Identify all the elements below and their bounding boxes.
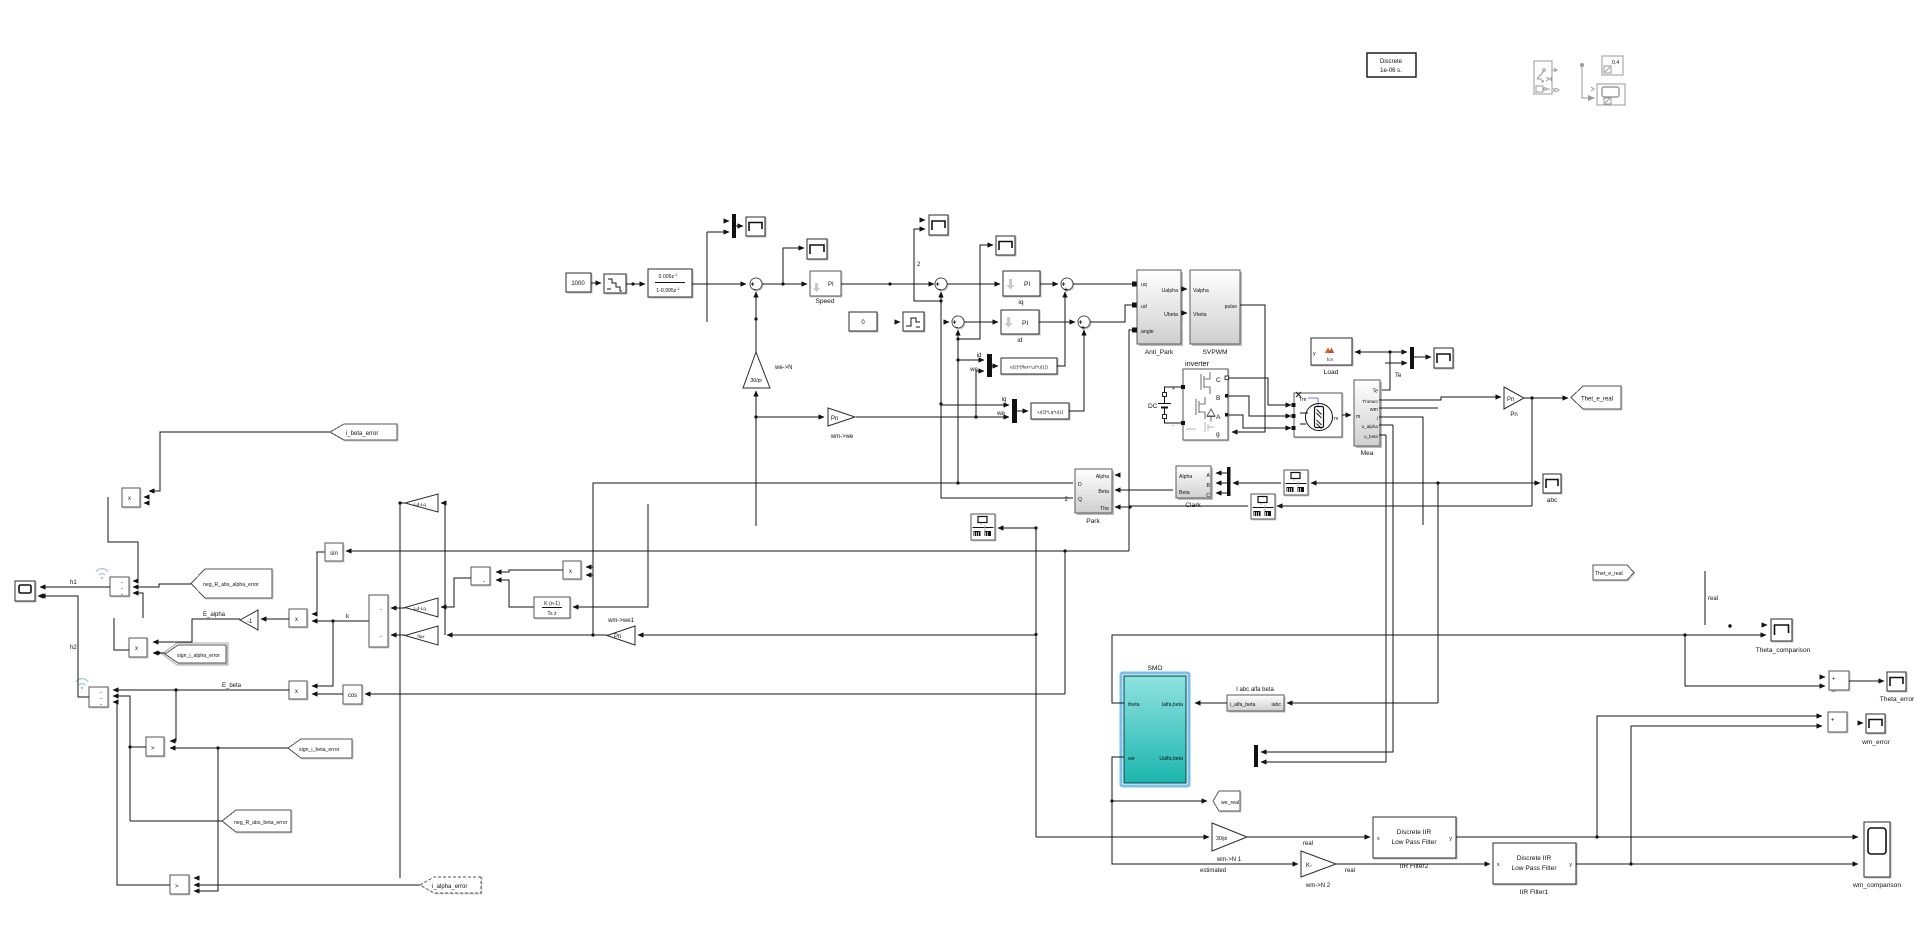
wire K to sumB [496, 580, 534, 607]
svg-text:Discrete: Discrete [1380, 59, 1403, 65]
wire id to scope5 [958, 245, 993, 339]
inverter block [1181, 369, 1229, 440]
junction [1128, 505, 1131, 508]
from tag sign_i_beta_error [288, 739, 352, 758]
svg-text:u_beta: u_beta [1364, 434, 1378, 439]
wifi icon sum3 [96, 569, 108, 580]
svg-text:cos: cos [348, 693, 357, 699]
sum1 speed [750, 278, 762, 294]
svg-text:1e-06 s.: 1e-06 s. [1380, 68, 1402, 74]
IIR filter2 [1373, 817, 1456, 870]
PI iq [1003, 271, 1040, 306]
svg-text:Discrete IIR: Discrete IIR [1517, 855, 1552, 862]
wire rt3 in from right [998, 527, 1036, 529]
wire switch1 in1 [170, 690, 176, 741]
wire mux4 to fcn2 [1017, 410, 1028, 412]
svg-text:real: real [1708, 596, 1718, 602]
svg-text:Beta: Beta [1179, 490, 1190, 496]
powergui Discrete [1367, 53, 1416, 77]
svg-text:x: x [135, 646, 138, 652]
from tag neg_R_abs_alpha_error [191, 569, 272, 598]
wire mux0 in1 [727, 220, 729, 222]
svg-text:ud: ud [1141, 304, 1147, 310]
wire Te to load fcn and mux5 [1355, 352, 1390, 390]
svg-text:x: x [128, 496, 131, 502]
svg-text:sign_i_beta_error: sign_i_beta_error [299, 747, 340, 753]
svg-text:g: g [1216, 431, 1220, 438]
wire gain3 to tallsum [391, 634, 405, 636]
svg-text:Discrete IIR: Discrete IIR [1397, 829, 1432, 836]
wire rt1 out to demux [1233, 482, 1281, 484]
svg-text:wm->we1: wm->we1 [607, 618, 635, 624]
svg-text:B: B [1207, 483, 1211, 489]
svg-text:D: D [1078, 482, 1082, 488]
svg-text:+: + [1832, 677, 1836, 683]
svg-text:Clark: Clark [1185, 502, 1201, 509]
junction theta cmp [1683, 633, 1686, 636]
svg-text:iq: iq [1002, 397, 1007, 403]
wire inverter A to motor c [1229, 415, 1291, 428]
wire sum2 out to PI iq [947, 283, 1000, 285]
wire const to ZOH [591, 282, 601, 284]
svg-text:we: we [1128, 756, 1135, 762]
svg-text:Ualfa,beta: Ualfa,beta [1159, 756, 1183, 762]
svg-text:wm: wm [1370, 407, 1378, 413]
wire x401 free end [399, 503, 401, 878]
svg-text:-: - [100, 702, 102, 708]
svg-text:Theta_error: Theta_error [1880, 696, 1915, 703]
junction theta park [1128, 506, 1130, 508]
svg-text:+: + [1831, 718, 1835, 724]
gain 30/pi wm-N1 [1212, 823, 1247, 863]
svg-text:+: + [1172, 386, 1175, 392]
svg-text:uq: uq [1141, 282, 1147, 288]
svg-text:Theta_comparison: Theta_comparison [1756, 647, 1811, 654]
svg-text:IIR Filter1: IIR Filter1 [1520, 889, 1549, 896]
wire fcn2 to sum5 [1069, 330, 1084, 411]
wire Clark beta to Park beta [1115, 489, 1173, 491]
svg-text:>: > [175, 884, 179, 890]
svg-text:Alpha: Alpha [1096, 474, 1109, 480]
wire sum2 bottom in [940, 292, 942, 301]
constant 0 [849, 312, 877, 331]
wire x1 down to sum3 [108, 497, 138, 581]
step block [897, 312, 924, 331]
svg-text:neg_R_abs_beta_error: neg_R_abs_beta_error [234, 820, 288, 826]
wire theta branch down [1064, 551, 1066, 694]
wire id line from Park D [593, 483, 1073, 635]
svg-text:sign_i_alpha_error: sign_i_alpha_error [177, 653, 220, 659]
svg-text:Thet_e_real: Thet_e_real [1581, 397, 1613, 403]
Anti_Park subsystem [1137, 270, 1183, 356]
cos block [343, 685, 362, 704]
svg-text:wm->we: wm->we [830, 434, 854, 440]
svg-text:wm->N 2: wm->N 2 [1305, 883, 1331, 889]
wire sum3 in3 stub [133, 593, 143, 618]
svg-text:wm->N 1: wm->N 1 [1216, 857, 1242, 863]
wire IIR2 out to wm_comparison [1456, 836, 1858, 838]
svg-text:Low Pass Filter: Low Pass Filter [1391, 839, 1437, 846]
wires demux to clark [1216, 472, 1227, 474]
wire TF to sum1 [692, 283, 746, 285]
svg-text:Ts z: Ts z [547, 611, 557, 617]
Park subsystem [1065, 469, 1119, 525]
svg-text:i_alfa_beta: i_alfa_beta [1230, 702, 1255, 708]
svg-text:Ld-Lq: Ld-Lq [414, 502, 426, 507]
wire mea u_beta [1379, 434, 1386, 436]
gray scope block [1581, 64, 1626, 106]
svg-text:y: y [1313, 351, 1316, 357]
svg-text:m: m [1334, 416, 1338, 422]
mux5 [1410, 347, 1414, 369]
wire i_beta_error to x1 [149, 432, 330, 491]
svg-text:iq: iq [1018, 299, 1023, 306]
wire sum5 out to AntiPark ud [1090, 305, 1132, 322]
svg-text:flux: flux [417, 634, 425, 639]
svg-text:Te: Te [1395, 373, 1402, 379]
goto2 Thet_e_real [1593, 565, 1634, 580]
svg-text:-: - [121, 592, 123, 598]
wire fcn1 to sum4 [1057, 292, 1065, 366]
svg-text:Mea: Mea [1361, 450, 1374, 457]
product xb [563, 561, 581, 579]
gain Pn wm-we1 left [607, 618, 635, 645]
gain K wm-N2 [1301, 851, 1336, 889]
wire we up to mux3 [976, 371, 984, 417]
wire sign alpha to x2 [153, 652, 165, 654]
wire PI speed to sum2 [841, 283, 934, 285]
wire to 30pi2 [1036, 836, 1209, 838]
stray dot [1728, 624, 1731, 627]
mux3 id-we [969, 353, 992, 377]
wire sum6 to scope [1849, 680, 1884, 682]
scope Theta_error [1880, 672, 1915, 703]
scope1 [746, 217, 765, 236]
wire real segment [1704, 571, 1706, 625]
sum7 wm err [1828, 712, 1847, 732]
junction [939, 299, 942, 302]
wire theta real down [1531, 398, 1533, 506]
svg-text:wm_error: wm_error [1861, 739, 1891, 746]
junction [754, 415, 757, 418]
wire inverter C to motor a [1229, 378, 1291, 405]
svg-text:h2: h2 [70, 645, 77, 651]
svg-text:theta: theta [1128, 702, 1140, 708]
tall sum [369, 595, 388, 647]
svg-text:SMO: SMO [1147, 665, 1162, 672]
sum3 3minus [110, 577, 129, 598]
svg-text:neg_R_abs_alpha_error: neg_R_abs_alpha_error [203, 582, 259, 588]
wire SMO theta out [1112, 635, 1766, 703]
discrete transfer fcn 0.005z/1-0.995z [648, 269, 692, 297]
svg-text:A: A [1207, 473, 1211, 479]
wire iabc vertical [1437, 483, 1439, 703]
svg-text:wm_comparison: wm_comparison [1852, 882, 1901, 889]
wire SMO we out estimated [1112, 757, 1298, 864]
scope4 [1434, 348, 1453, 368]
svg-text:30/pi: 30/pi [750, 378, 761, 384]
wire Pn3 to tag [1524, 397, 1568, 399]
wire sum3 out to scope [40, 586, 110, 588]
svg-text:x: x [1497, 862, 1500, 868]
wire sum3 bottom in [957, 330, 959, 339]
sum2 iq [935, 278, 947, 294]
wire Ualpha to SVPWM [1181, 288, 1187, 290]
wire theta main horizontal to sin [346, 550, 1129, 552]
SMO block selected [1121, 665, 1189, 786]
svg-text:fcn: fcn [1327, 357, 1334, 362]
svg-text:E_beta: E_beta [222, 683, 242, 689]
product x1 [122, 488, 146, 507]
wire mux5 to scope4 [1414, 356, 1431, 358]
svg-text:y: y [1569, 862, 1572, 868]
junction [888, 282, 891, 285]
svg-text:0.4: 0.4 [1612, 60, 1619, 66]
svg-text:pulse: pulse [1225, 304, 1238, 310]
wire ialfabeta to SMO [1195, 702, 1227, 704]
K derivative block [534, 597, 570, 618]
svg-text:PI: PI [1022, 320, 1028, 327]
svg-text:Te: Te [1373, 389, 1379, 395]
svg-text:inverter: inverter [1185, 359, 1210, 368]
rate transition 2 [1251, 494, 1275, 519]
wire pulse to inverter g [1232, 305, 1265, 432]
svg-text:B: B [1216, 395, 1221, 402]
wire inverter B to motor b [1229, 396, 1291, 416]
svg-text:Pn: Pn [1507, 397, 1514, 403]
wire Pn1 out to flux gain [447, 634, 607, 636]
wire iq feedback riser [941, 301, 1073, 498]
wire PI iq to sum4 [1040, 283, 1058, 285]
gain Pn wm-we [828, 408, 855, 440]
gain Pn3 [1504, 387, 1524, 418]
gain1 LdLq [405, 494, 438, 512]
svg-text:angle: angle [1141, 329, 1154, 335]
PI id [1001, 310, 1039, 344]
wire mux0 to scope1 [736, 225, 743, 227]
svg-text:1000: 1000 [571, 281, 585, 287]
wire 30/pi out to sum1 [755, 292, 757, 352]
SVPWM subsystem [1190, 270, 1242, 356]
switch1 [146, 737, 164, 756]
wire iq to mux4 [941, 404, 1009, 406]
svg-text:i_alpha_error: i_alpha_error [432, 884, 467, 890]
svg-text:estimated: estimated [1200, 868, 1226, 874]
junction [754, 317, 757, 320]
svg-text:real: real [1345, 868, 1355, 874]
scope wm_comparison [1852, 822, 1901, 889]
svg-text:Ld-Lq: Ld-Lq [414, 606, 426, 611]
svg-text:E_alpha: E_alpha [203, 612, 226, 618]
svg-text:id: id [1017, 337, 1022, 344]
svg-text:Pn: Pn [614, 634, 621, 640]
junction [956, 358, 959, 361]
junction [1436, 481, 1439, 484]
wire i_alpha_error to switch2 [194, 884, 420, 886]
wire neg_R alpha to sum3 [133, 584, 191, 587]
svg-text:x: x [1377, 836, 1380, 842]
mux4 iq-we [996, 397, 1017, 423]
svg-text:we: we [969, 367, 978, 373]
wire mea thetam to Pn3 [1379, 397, 1501, 400]
wire motor m to Mea [1342, 414, 1351, 416]
wire s2 out E_beta [113, 689, 289, 691]
wire x130 vertical [113, 696, 130, 821]
wire into gain1 [441, 502, 445, 504]
wire x2 out [114, 618, 129, 650]
gray const block [1602, 56, 1623, 75]
svg-text:y: y [1449, 836, 1452, 842]
from tag Thet_e_real [1571, 386, 1621, 409]
svg-text:Tm: Tm [1299, 397, 1307, 403]
svg-text:Pn: Pn [1510, 412, 1517, 418]
wire we_real branch [1112, 800, 1207, 802]
svg-text:Ubeta: Ubeta [1164, 312, 1178, 318]
wire mea wm stub [1379, 407, 1438, 409]
wire vertical x707 [706, 232, 708, 322]
product x2 [129, 638, 147, 657]
wire Pn out to mux4 we [856, 416, 1009, 418]
sum4 3minus [89, 687, 108, 708]
junction [631, 282, 634, 285]
wire switch1 out [130, 746, 146, 748]
scope5 id [996, 236, 1015, 255]
wire sum1 out [762, 283, 807, 285]
scope wm_error [1861, 714, 1891, 746]
scope Theta_comparison [1756, 619, 1811, 654]
wire x445 [444, 503, 446, 635]
abc scope [1543, 474, 1561, 504]
svg-text:PI: PI [828, 282, 834, 288]
wire tallsum to s1 and s2 [312, 620, 369, 622]
svg-text:Vbeta: Vbeta [1193, 312, 1207, 318]
wire id to mux3 [958, 359, 984, 361]
Load fcn block [1311, 338, 1352, 376]
constant 1000 [566, 273, 591, 292]
svg-text:h1: h1 [70, 580, 77, 586]
wire branch up to sum wm2 [1631, 726, 1822, 864]
PI speed [810, 271, 841, 305]
svg-text:Park: Park [1086, 518, 1100, 525]
wire sum4 out h2 [40, 596, 89, 697]
wire branch up to sum wm [1597, 716, 1822, 837]
wire branch to scope2 [783, 248, 804, 284]
wire neg beta tag [130, 820, 222, 822]
wire vertical x756 below [755, 417, 757, 526]
gain2 LdLq [405, 598, 438, 617]
sum3 id [952, 316, 964, 332]
wire gain2 to tallsum [391, 607, 405, 609]
rate transition 3 [971, 514, 995, 540]
wire sumB to gain2 [441, 578, 471, 607]
wire 30pi2 to IIR2 [1247, 836, 1370, 838]
switch2 in1 stub [194, 877, 196, 879]
from tag i_beta_error [330, 424, 397, 440]
wire theta to sum6 [1685, 635, 1825, 686]
junction [781, 282, 784, 285]
junction [939, 402, 942, 405]
wire rt1 to abc scope [1438, 482, 1540, 484]
svg-text:Pn: Pn [831, 416, 838, 422]
rate transition 1 [1284, 470, 1308, 495]
demux abc [1227, 467, 1231, 496]
goto we_real [1213, 791, 1240, 811]
wire mea u_alpha [1379, 424, 1393, 426]
wire id feedback riser [957, 339, 959, 483]
svg-text:Alpha: Alpha [1179, 474, 1192, 480]
sum4 [1061, 278, 1073, 294]
svg-text:The: The [1100, 506, 1109, 512]
gain -1 [240, 610, 258, 630]
from tag i_alpha_error [420, 877, 481, 893]
svg-text:we_real: we_real [1221, 800, 1239, 806]
wire IIR1 out to wm_comparison [1576, 863, 1858, 865]
svg-text:PI: PI [1024, 281, 1030, 288]
svg-text:u_alpha: u_alpha [1362, 424, 1379, 429]
wire theta to cos [365, 693, 1065, 695]
wire we to Pn gain [756, 416, 824, 418]
DC source [1148, 386, 1181, 429]
svg-text:Load: Load [1324, 369, 1339, 376]
junction [956, 337, 959, 340]
wire mux0 in2 [707, 231, 729, 233]
wire ualpha to mux6 [1261, 425, 1393, 752]
svg-text:>: > [151, 746, 155, 752]
wire into 30/pi [755, 391, 757, 417]
fcn1 u(2)*(flux+Ld*u(1)) [1001, 358, 1057, 374]
wire ubeta to mux6 [1261, 435, 1386, 762]
wire gain1 out down [400, 502, 405, 504]
wire sum3 out to PI id [964, 321, 998, 323]
svg-text:i: i [1377, 416, 1378, 422]
wire x218 into switch2 [194, 748, 218, 891]
wire sum4 out to AntiPark uq [1073, 283, 1132, 285]
svg-text:30/pi: 30/pi [1216, 836, 1227, 842]
wire PI id to sum5 [1039, 321, 1075, 323]
mux6 [1254, 745, 1258, 767]
junction [956, 481, 959, 484]
junction [974, 415, 977, 418]
svg-text:Speed: Speed [815, 298, 834, 305]
svg-text:m: m [1356, 414, 1360, 420]
svg-text:-u(2)*Lq*u(1): -u(2)*Lq*u(1) [1037, 410, 1064, 415]
wifi icon sum4 [76, 679, 88, 690]
PMSM machine block [1292, 392, 1343, 437]
wire id vert to xb [586, 566, 593, 568]
i abc alfa beta block [1227, 687, 1286, 713]
svg-text:-: - [380, 634, 382, 640]
svg-text:u(2)*(flux+Ld*u(1)): u(2)*(flux+Ld*u(1)) [1010, 365, 1048, 370]
svg-text:C: C [1206, 493, 1210, 499]
svg-text:real: real [1303, 841, 1313, 847]
fcn2 -u(2)*Lq*u(1) [1031, 403, 1069, 419]
wire rt1 right [1311, 482, 1438, 484]
wire into K from x648 [573, 504, 648, 607]
wire cos to s2 [312, 693, 343, 695]
scope2 [807, 239, 827, 259]
svg-text:-: - [380, 607, 382, 613]
svg-text:-: - [483, 579, 485, 585]
svg-text:abc: abc [1547, 497, 1558, 504]
Mea measurement block [1354, 380, 1382, 457]
wire Ubeta to SVPWM [1181, 312, 1187, 314]
wire mea i down [1379, 417, 1423, 525]
switch2 [170, 875, 189, 894]
wire mux5 in2 [1385, 362, 1407, 364]
wire sin to s1 [312, 552, 325, 614]
scope3 [923, 215, 948, 235]
wire step to sum3 stub [944, 321, 949, 323]
